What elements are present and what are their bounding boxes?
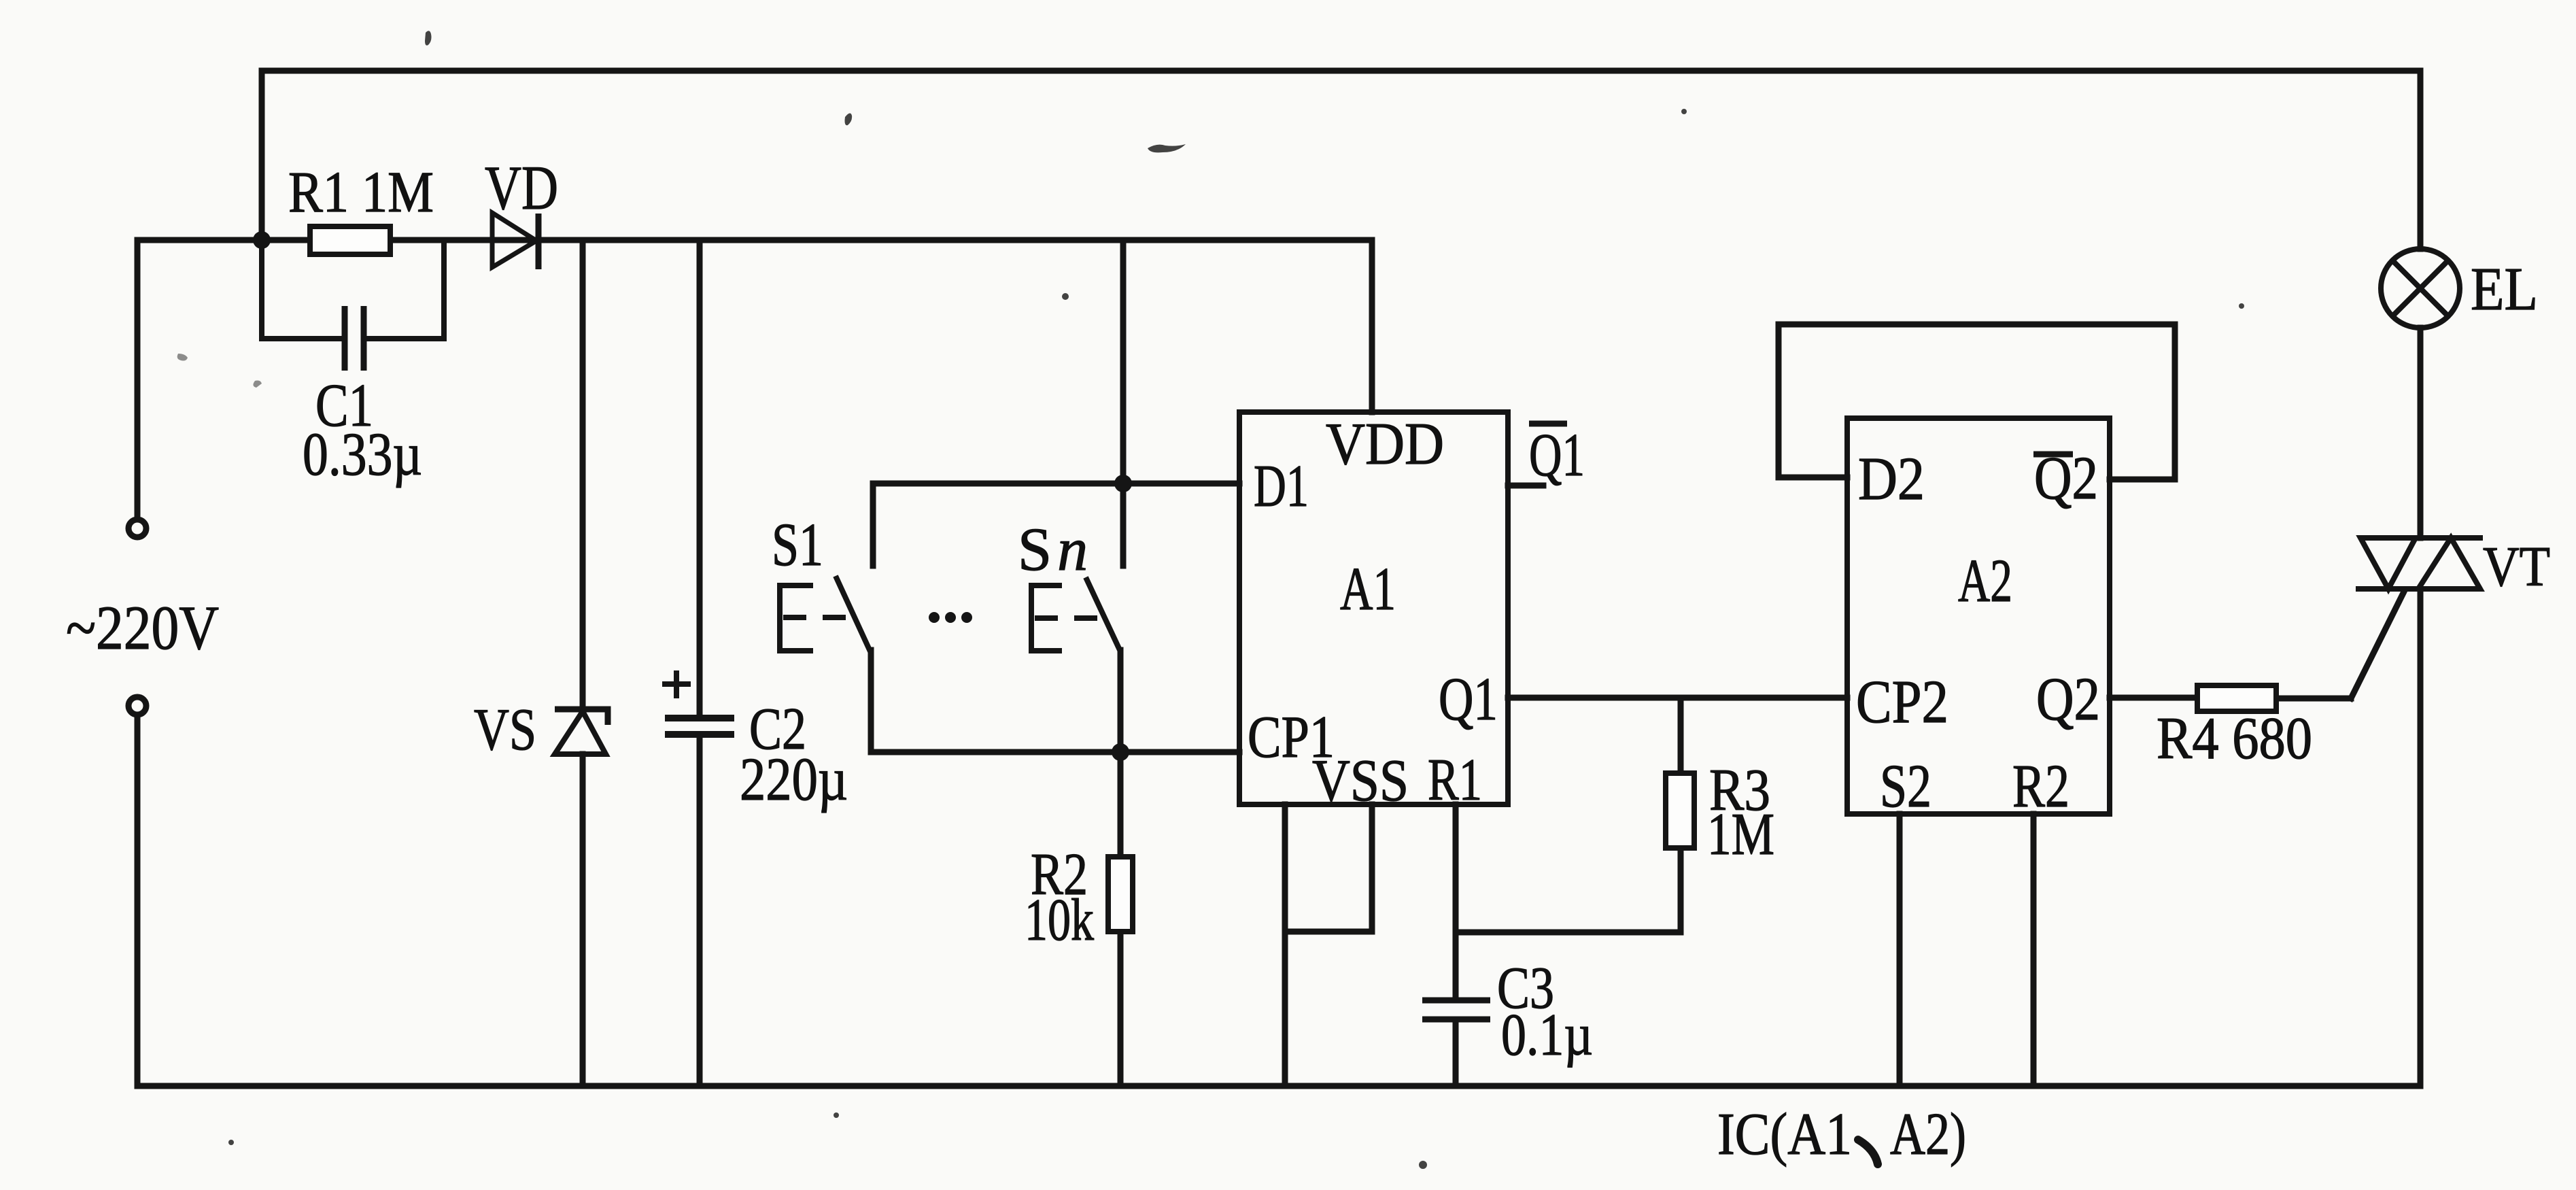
wire D2 feedback loop <box>1779 324 2175 479</box>
resistor R1 <box>310 226 390 254</box>
svg-text:D1: D1 <box>1254 454 1309 520</box>
wire R2 lower lead <box>1118 932 1124 1086</box>
node junction CP1/Sn <box>1112 743 1129 761</box>
node junction D1/Sn <box>1114 475 1132 492</box>
svg-text:10k: 10k <box>1025 887 1094 953</box>
wire Q2 to R4 <box>2110 695 2197 701</box>
svg-text:0.33µ: 0.33µ <box>303 421 422 488</box>
scan artifacts <box>177 31 2244 1169</box>
wire S2 pin <box>1897 814 1903 1086</box>
zener VS <box>555 709 608 754</box>
svg-text:VSS: VSS <box>1312 748 1409 814</box>
svg-text:S2: S2 <box>1880 753 1931 820</box>
triac VT <box>2356 538 2483 589</box>
svg-text:VT: VT <box>2483 535 2550 598</box>
svg-text:VDD: VDD <box>1326 411 1444 477</box>
switch S1 <box>780 576 870 651</box>
wire R2 upper lead <box>1118 752 1124 857</box>
wire VS branch upper <box>580 240 586 709</box>
wire C3 to bottom bus <box>1453 1021 1459 1086</box>
capacitor C2 plates <box>665 718 734 734</box>
wire R3 to R1 join <box>1456 930 1681 936</box>
op-amp U2 : IC block A2 <box>1847 418 2110 814</box>
wire A1 ground pin <box>1282 804 1288 1086</box>
enumeration comma mark <box>1858 1140 1878 1164</box>
overbar of Q2 <box>2033 452 2073 458</box>
wire C2 branch upper <box>697 240 703 715</box>
svg-text:Q1: Q1 <box>1439 666 1498 733</box>
capacitor C2 polarity plus <box>662 670 691 698</box>
op-amp U1 : IC block A1 <box>1239 412 1508 804</box>
svg-text:S1: S1 <box>772 511 823 579</box>
wire D1 horizontal <box>873 481 1239 487</box>
wire VSS pin lead <box>1369 804 1375 932</box>
svg-text:CP2: CP2 <box>1856 668 1948 736</box>
wire upper AC terminal drop <box>135 240 141 519</box>
wire lower AC terminal to bottom bus <box>135 715 141 1086</box>
wire CP1 horizontal <box>871 749 1239 755</box>
svg-text:IC(A1: IC(A1 <box>1717 1102 1852 1168</box>
svg-text:R2: R2 <box>2012 753 2070 820</box>
svg-text:~220V: ~220V <box>66 593 219 662</box>
terminal upper circle <box>128 520 146 537</box>
svg-text:Q1: Q1 <box>1529 422 1585 489</box>
resistor R2 <box>1108 857 1133 932</box>
wire R2 pin of A2 <box>2031 814 2037 1086</box>
svg-text:R1 1M: R1 1M <box>288 159 434 224</box>
capacitor C1 loop wires <box>262 240 444 339</box>
wire R3 upper lead <box>1678 698 1684 773</box>
svg-text:R4 680: R4 680 <box>2157 706 2312 772</box>
wire C2 branch lower <box>697 736 703 1086</box>
switch Sn <box>1031 577 1120 651</box>
wire R1 pin to C3 <box>1453 804 1459 998</box>
svg-text:VD: VD <box>485 153 558 222</box>
wire triac to bottom bus <box>2418 589 2424 1086</box>
wire Sn bottom lead <box>1118 650 1124 752</box>
capacitor C3 plates <box>1422 1000 1490 1019</box>
resistor R3 <box>1666 773 1694 848</box>
wire S1 top contact <box>870 483 876 566</box>
svg-text:R1: R1 <box>1428 747 1482 813</box>
capacitor C1 plates <box>345 306 364 371</box>
svg-text:A2: A2 <box>1958 547 2012 615</box>
wire Q1 to CP2 <box>1508 695 1847 701</box>
terminal lower circle <box>128 697 146 715</box>
wire D1 branch drop <box>1120 240 1127 483</box>
wire Sn top contact <box>1120 483 1127 566</box>
wire R3 lower lead <box>1678 848 1684 932</box>
diode VD <box>492 213 538 269</box>
lamp EL <box>2381 249 2460 328</box>
svg-text:220µ: 220µ <box>740 746 848 813</box>
svg-text:EL: EL <box>2471 256 2538 323</box>
wire VS branch lower <box>580 754 586 1086</box>
wire VDD drop into A1 <box>1369 240 1375 412</box>
ellipsis dots between switches <box>929 612 940 623</box>
wire top bus <box>262 68 2420 74</box>
svg-text:D2: D2 <box>1858 445 1925 513</box>
svg-text:VS: VS <box>474 697 536 763</box>
overbar of Q1 <box>1529 421 1567 427</box>
wire lamp to triac <box>2418 328 2424 538</box>
wire VSS join <box>1285 929 1372 935</box>
svg-text:1M: 1M <box>1707 802 1774 868</box>
svg-text:Q2: Q2 <box>2036 666 2100 733</box>
resistor R4 <box>2197 685 2276 711</box>
wire S1 bottom lead <box>868 650 874 752</box>
svg-text:A1: A1 <box>1340 556 1396 623</box>
svg-text:A2): A2) <box>1890 1102 1966 1168</box>
svg-text:0.1µ: 0.1µ <box>1501 1002 1593 1068</box>
node junction at top-left <box>253 231 271 249</box>
wire triac gate diagonal <box>2351 590 2405 698</box>
wire R4 to gate bend <box>2276 696 2351 702</box>
wire bottom bus <box>137 1083 2420 1089</box>
wire main horizontal (left rail to VDD corner) <box>137 237 1372 243</box>
wire right drop to lamp <box>2418 71 2424 249</box>
wire Q1-bar stub <box>1508 483 1543 489</box>
wire top-left drop <box>259 71 265 240</box>
